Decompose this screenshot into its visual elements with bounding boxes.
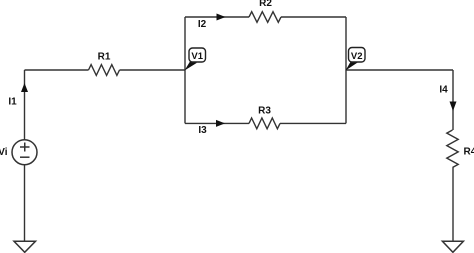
wire: bottom branch left segment xyxy=(185,122,249,124)
svg-text:I3: I3 xyxy=(198,125,207,136)
ground (right) xyxy=(442,241,463,252)
wire: V1 vertical (top branch to bottom branch) xyxy=(184,17,186,123)
resistor R2 xyxy=(249,0,281,22)
svg-text:R4: R4 xyxy=(464,147,474,158)
wire: voltage source bottom to left ground xyxy=(24,165,26,243)
wire: bottom branch right segment xyxy=(280,122,346,124)
wire: V2 to right rail xyxy=(346,69,453,71)
svg-text:V2: V2 xyxy=(351,51,363,62)
current arrow I3 xyxy=(216,120,225,127)
wire: R1 to node V1 xyxy=(120,69,186,71)
svg-text:I4: I4 xyxy=(439,85,448,96)
wire: top branch left segment xyxy=(185,16,249,18)
current arrow I4 xyxy=(450,102,457,112)
voltage source Vi xyxy=(0,140,37,165)
svg-text:Vi: Vi xyxy=(0,147,8,158)
wire: left rail from corner down to voltage source top xyxy=(24,70,26,140)
svg-text:I1: I1 xyxy=(8,97,17,108)
wire: R4 bottom to right ground xyxy=(452,168,454,244)
current arrow I2 xyxy=(217,14,226,21)
resistor R1 xyxy=(89,52,120,76)
ground (left) xyxy=(14,241,36,252)
svg-text:V1: V1 xyxy=(191,51,203,62)
node V2 xyxy=(346,48,366,71)
wire: top branch right segment xyxy=(281,16,346,18)
resistor R3 xyxy=(249,106,280,129)
resistor R4 xyxy=(447,130,474,168)
node V1 xyxy=(185,48,206,71)
svg-text:I2: I2 xyxy=(198,19,207,30)
wire: right rail down to R4 xyxy=(452,70,454,130)
svg-text:R1: R1 xyxy=(98,52,111,63)
current arrow I1 xyxy=(21,83,28,92)
svg-text:R3: R3 xyxy=(258,106,271,117)
wire: main horizontal from source rail to R1 xyxy=(25,69,89,71)
svg-text:R2: R2 xyxy=(259,0,272,9)
wire: V2 vertical (top branch to bottom branch) xyxy=(345,17,347,123)
